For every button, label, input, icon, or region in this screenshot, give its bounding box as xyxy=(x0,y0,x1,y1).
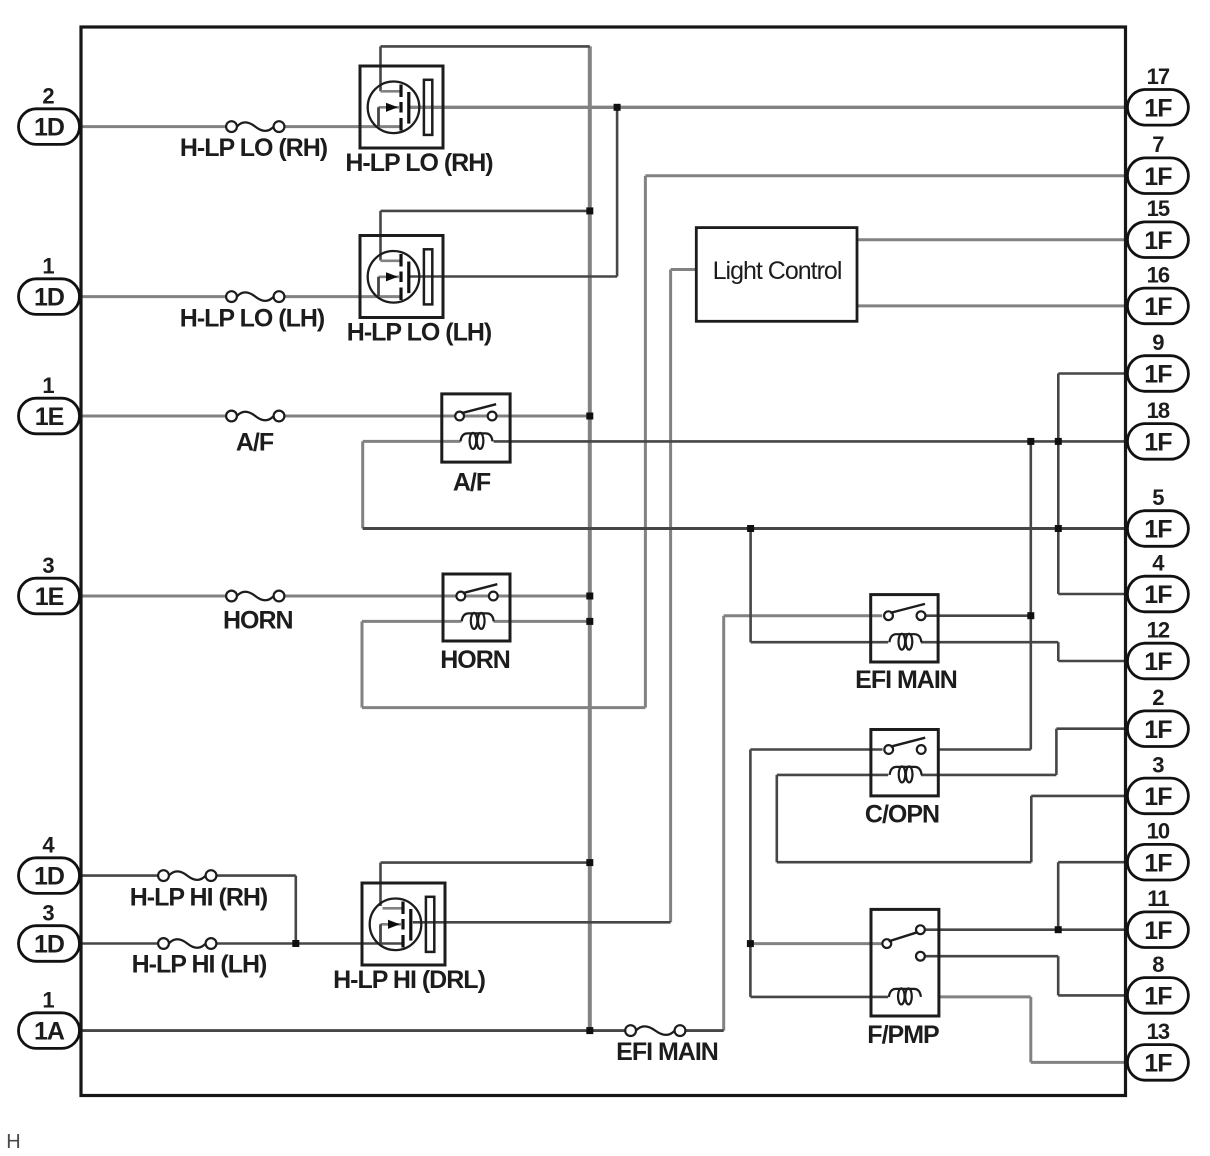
svg-text:1F: 1F xyxy=(1144,917,1172,945)
svg-text:H: H xyxy=(6,1131,20,1153)
svg-text:H-LP HI (RH): H-LP HI (RH) xyxy=(130,884,268,912)
svg-text:1F: 1F xyxy=(1144,361,1172,389)
svg-text:1: 1 xyxy=(42,373,54,398)
svg-text:1D: 1D xyxy=(34,863,64,891)
svg-text:1: 1 xyxy=(42,988,54,1013)
svg-text:3: 3 xyxy=(1152,752,1164,777)
svg-text:16: 16 xyxy=(1147,262,1170,287)
svg-text:F/PMP: F/PMP xyxy=(867,1021,939,1049)
svg-text:9: 9 xyxy=(1152,330,1164,355)
svg-text:1F: 1F xyxy=(1144,581,1172,609)
svg-text:1F: 1F xyxy=(1144,849,1172,877)
svg-text:A/F: A/F xyxy=(236,429,274,457)
svg-text:3: 3 xyxy=(42,553,54,578)
svg-text:5: 5 xyxy=(1152,485,1164,510)
svg-text:H-LP LO (LH): H-LP LO (LH) xyxy=(347,319,492,347)
svg-text:1F: 1F xyxy=(1144,516,1172,544)
svg-text:1F: 1F xyxy=(1144,227,1172,255)
svg-text:1F: 1F xyxy=(1144,716,1172,744)
svg-text:1F: 1F xyxy=(1144,429,1172,457)
svg-text:1F: 1F xyxy=(1144,983,1172,1011)
svg-text:1F: 1F xyxy=(1144,648,1172,676)
svg-text:H-LP HI (DRL): H-LP HI (DRL) xyxy=(333,966,485,994)
svg-text:1E: 1E xyxy=(35,403,64,431)
svg-text:1D: 1D xyxy=(34,284,64,312)
svg-text:H-LP HI (LH): H-LP HI (LH) xyxy=(132,951,267,979)
svg-text:15: 15 xyxy=(1147,196,1170,221)
svg-text:1F: 1F xyxy=(1144,94,1172,122)
svg-text:HORN: HORN xyxy=(440,646,510,674)
svg-text:1D: 1D xyxy=(34,931,64,959)
svg-text:2: 2 xyxy=(1152,685,1164,710)
svg-text:1E: 1E xyxy=(35,583,64,611)
svg-text:7: 7 xyxy=(1152,132,1164,157)
svg-text:3: 3 xyxy=(42,901,54,926)
svg-text:1A: 1A xyxy=(34,1018,65,1046)
svg-text:4: 4 xyxy=(1152,551,1165,576)
svg-text:1F: 1F xyxy=(1144,1050,1172,1078)
svg-text:1: 1 xyxy=(42,254,54,279)
svg-text:18: 18 xyxy=(1147,398,1170,423)
svg-text:1D: 1D xyxy=(34,114,64,142)
svg-text:2: 2 xyxy=(42,84,54,109)
svg-text:Light Control: Light Control xyxy=(713,257,842,285)
svg-text:1F: 1F xyxy=(1144,293,1172,321)
svg-text:C/OPN: C/OPN xyxy=(865,801,939,829)
svg-text:13: 13 xyxy=(1147,1019,1170,1044)
svg-text:H-LP LO (LH): H-LP LO (LH) xyxy=(180,305,325,333)
svg-text:11: 11 xyxy=(1147,886,1169,911)
svg-text:1F: 1F xyxy=(1144,163,1172,191)
svg-text:EFI MAIN: EFI MAIN xyxy=(616,1038,718,1066)
svg-text:HORN: HORN xyxy=(223,606,293,634)
svg-text:H-LP LO (RH): H-LP LO (RH) xyxy=(180,134,328,162)
svg-text:10: 10 xyxy=(1147,819,1170,844)
svg-text:17: 17 xyxy=(1147,64,1170,89)
svg-text:12: 12 xyxy=(1147,618,1170,643)
svg-text:4: 4 xyxy=(42,833,55,858)
svg-text:EFI MAIN: EFI MAIN xyxy=(855,666,957,694)
svg-text:1F: 1F xyxy=(1144,783,1172,811)
svg-text:A/F: A/F xyxy=(453,469,491,497)
svg-text:H-LP LO (RH): H-LP LO (RH) xyxy=(345,149,493,177)
svg-text:8: 8 xyxy=(1152,952,1164,977)
